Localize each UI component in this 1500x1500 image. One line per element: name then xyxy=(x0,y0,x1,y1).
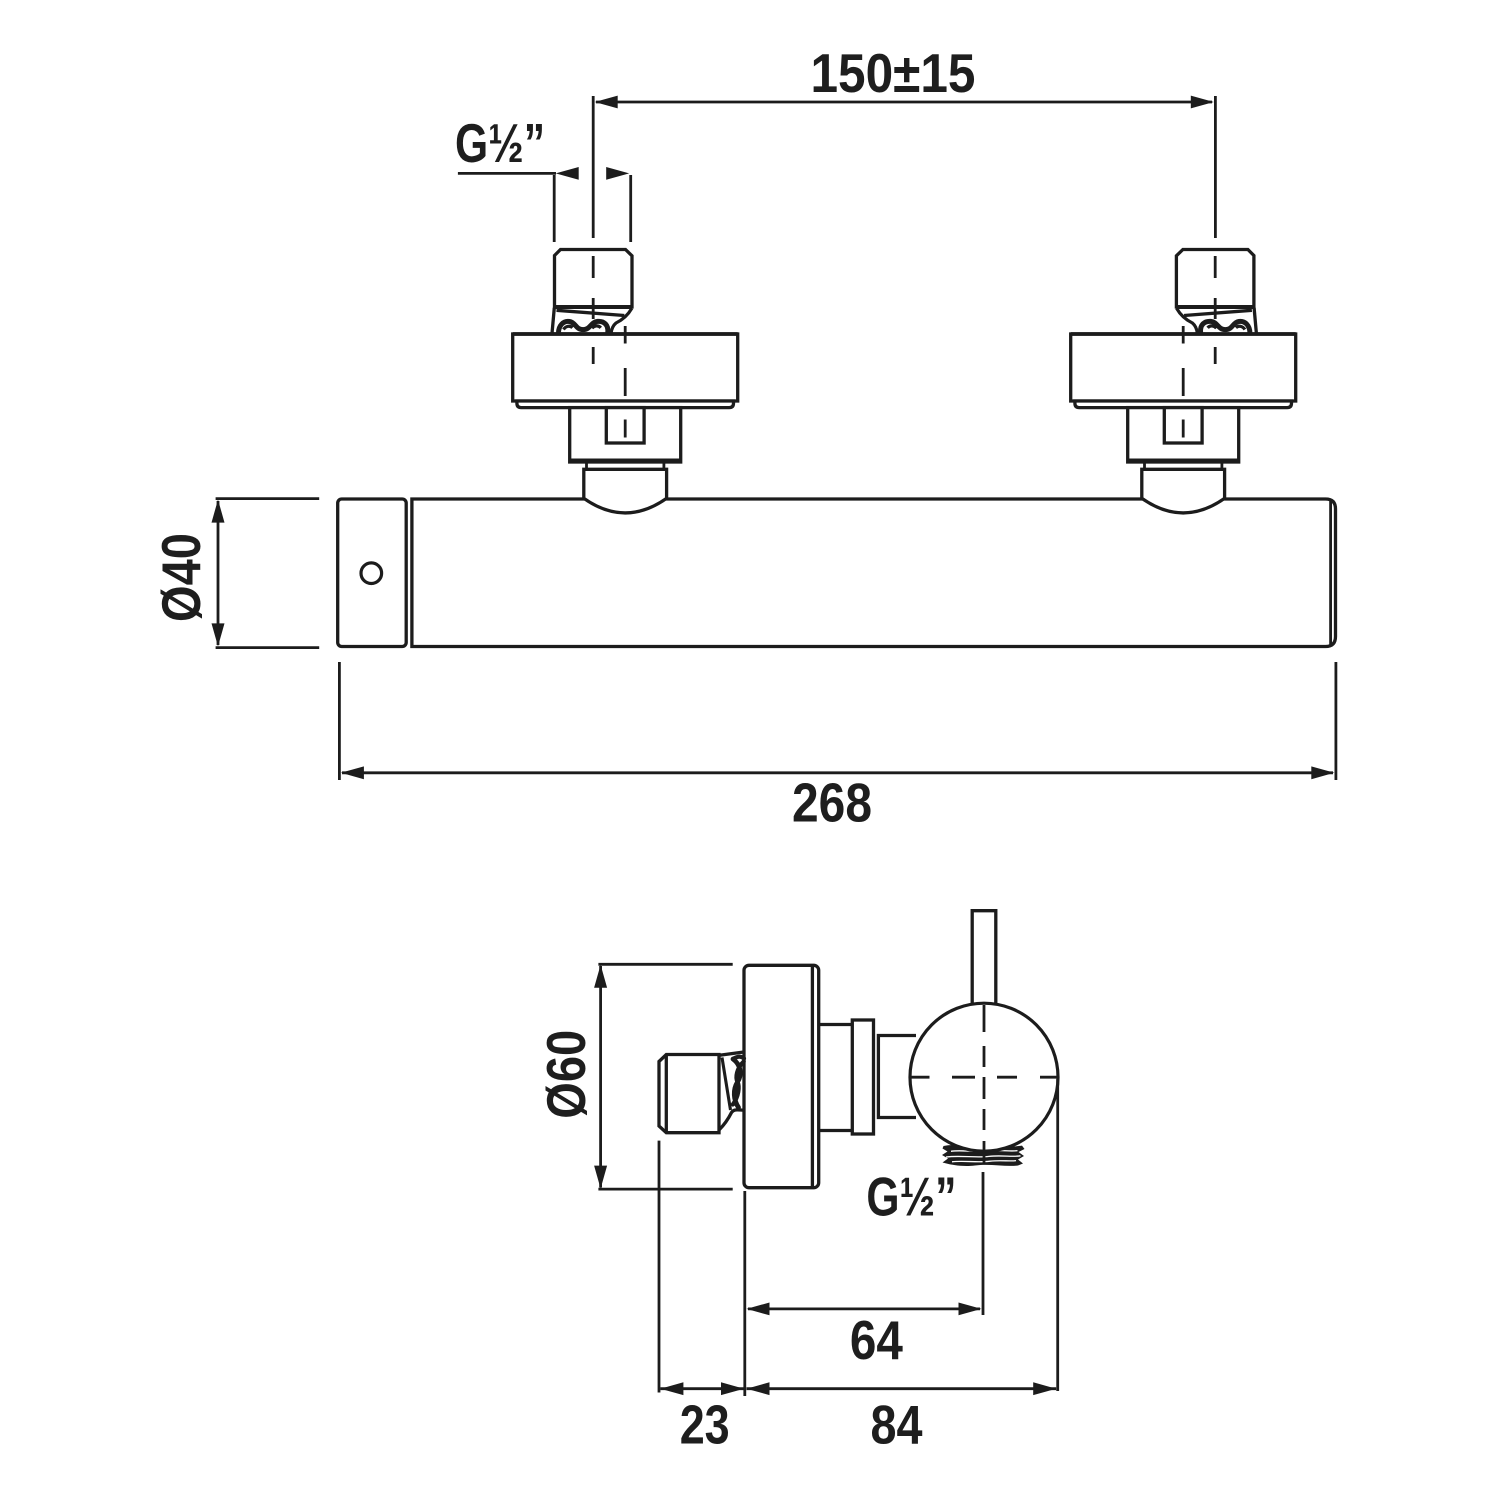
arrowhead 84 left xyxy=(747,1382,770,1395)
bar left end cap xyxy=(338,499,407,647)
extension disc face xyxy=(743,1191,746,1396)
dim 150 right extension xyxy=(1214,96,1217,238)
svg-text:23: 23 xyxy=(680,1394,730,1456)
dim G1/2 right extension xyxy=(629,175,632,242)
svg-text:150±15: 150±15 xyxy=(811,42,976,104)
arrowhead 64 right xyxy=(959,1303,982,1316)
recess xyxy=(606,408,644,443)
svg-text:84: 84 xyxy=(871,1394,923,1456)
ball crosshair vertical xyxy=(983,1005,986,1163)
dim 268 line xyxy=(342,771,1333,774)
dim 23 line xyxy=(660,1387,744,1390)
dim 268 right extension xyxy=(1335,662,1338,780)
dim 64 line xyxy=(748,1308,980,1311)
arrowhead 64 left xyxy=(747,1303,770,1316)
section A cylinder xyxy=(819,1023,853,1026)
extension nut face xyxy=(658,1141,661,1393)
union nut (side) xyxy=(659,1055,719,1133)
wall flange xyxy=(513,334,738,401)
dim O40 top extension xyxy=(216,497,320,500)
dim O60 line xyxy=(599,966,602,1188)
dim 150+-15 line xyxy=(596,101,1212,104)
handle stem xyxy=(972,911,996,1012)
dim 84 line xyxy=(747,1387,1057,1390)
arrowhead O60 down xyxy=(594,1166,607,1189)
arrowhead 268 left xyxy=(341,766,364,779)
dim O60 bottom extension xyxy=(598,1188,732,1191)
left wall connector assembly xyxy=(513,250,738,513)
swivel joint squiggle xyxy=(559,321,608,333)
right wall connector assembly (mirrored) xyxy=(1071,250,1296,513)
arrowhead 150 left xyxy=(595,96,618,109)
nut centerline dashes xyxy=(592,256,595,364)
dim 150 left extension xyxy=(592,96,595,238)
bar right end seam xyxy=(1329,500,1332,647)
section B ring xyxy=(852,1020,873,1134)
section C cylinder xyxy=(878,1036,916,1118)
arrowhead O60 up xyxy=(594,965,607,988)
outlet thread xyxy=(942,1145,1025,1166)
svg-text:268: 268 xyxy=(792,771,872,833)
dim G1/2 left extension xyxy=(553,175,556,242)
flange lip xyxy=(517,401,734,408)
nut face seam xyxy=(665,1055,668,1133)
swivel washer edge (side) xyxy=(722,1058,731,1111)
ball crosshair horizontal xyxy=(910,1076,1058,1079)
svg-text:Ø40: Ø40 xyxy=(150,533,212,622)
ring ticks xyxy=(585,462,588,469)
flange disc (side) xyxy=(744,965,819,1187)
swivel squiggle (side) xyxy=(733,1057,744,1059)
arrowhead O40 up xyxy=(212,500,225,523)
arrowhead 268 right xyxy=(1311,766,1334,779)
arrowhead 23 right xyxy=(721,1382,744,1395)
arrowhead G1/2 right xyxy=(606,167,629,180)
swivel taper (side) xyxy=(720,1052,744,1055)
disc seam xyxy=(811,966,814,1187)
dim G1/2 leader xyxy=(458,172,556,175)
svg-text:G½”: G½” xyxy=(455,112,545,174)
dim 64 right extension xyxy=(982,1172,985,1315)
ball body xyxy=(910,1003,1058,1151)
extension ball tangent xyxy=(1056,1079,1059,1391)
dim O40 line xyxy=(217,501,220,645)
dim O40 bottom extension xyxy=(216,646,320,649)
pin hole xyxy=(361,563,382,584)
swivel washer edges xyxy=(557,310,625,315)
dim 268 left extension xyxy=(338,662,341,780)
arrowhead 23 left xyxy=(660,1382,683,1395)
arrowhead O40 down xyxy=(212,623,225,646)
arrowhead 150 right xyxy=(1191,96,1214,109)
svg-text:Ø60: Ø60 xyxy=(535,1030,597,1119)
dim O60 top extension xyxy=(598,963,732,966)
hex body xyxy=(570,408,681,462)
base cap xyxy=(584,469,667,513)
svg-text:G½”: G½” xyxy=(866,1165,956,1227)
arrowhead G1/2 left xyxy=(556,167,579,180)
body centerline dashes xyxy=(624,326,627,438)
bar body xyxy=(412,499,1336,647)
arrowhead 84 right xyxy=(1033,1382,1056,1395)
svg-text:64: 64 xyxy=(850,1309,903,1371)
union nut (front) xyxy=(555,250,633,308)
